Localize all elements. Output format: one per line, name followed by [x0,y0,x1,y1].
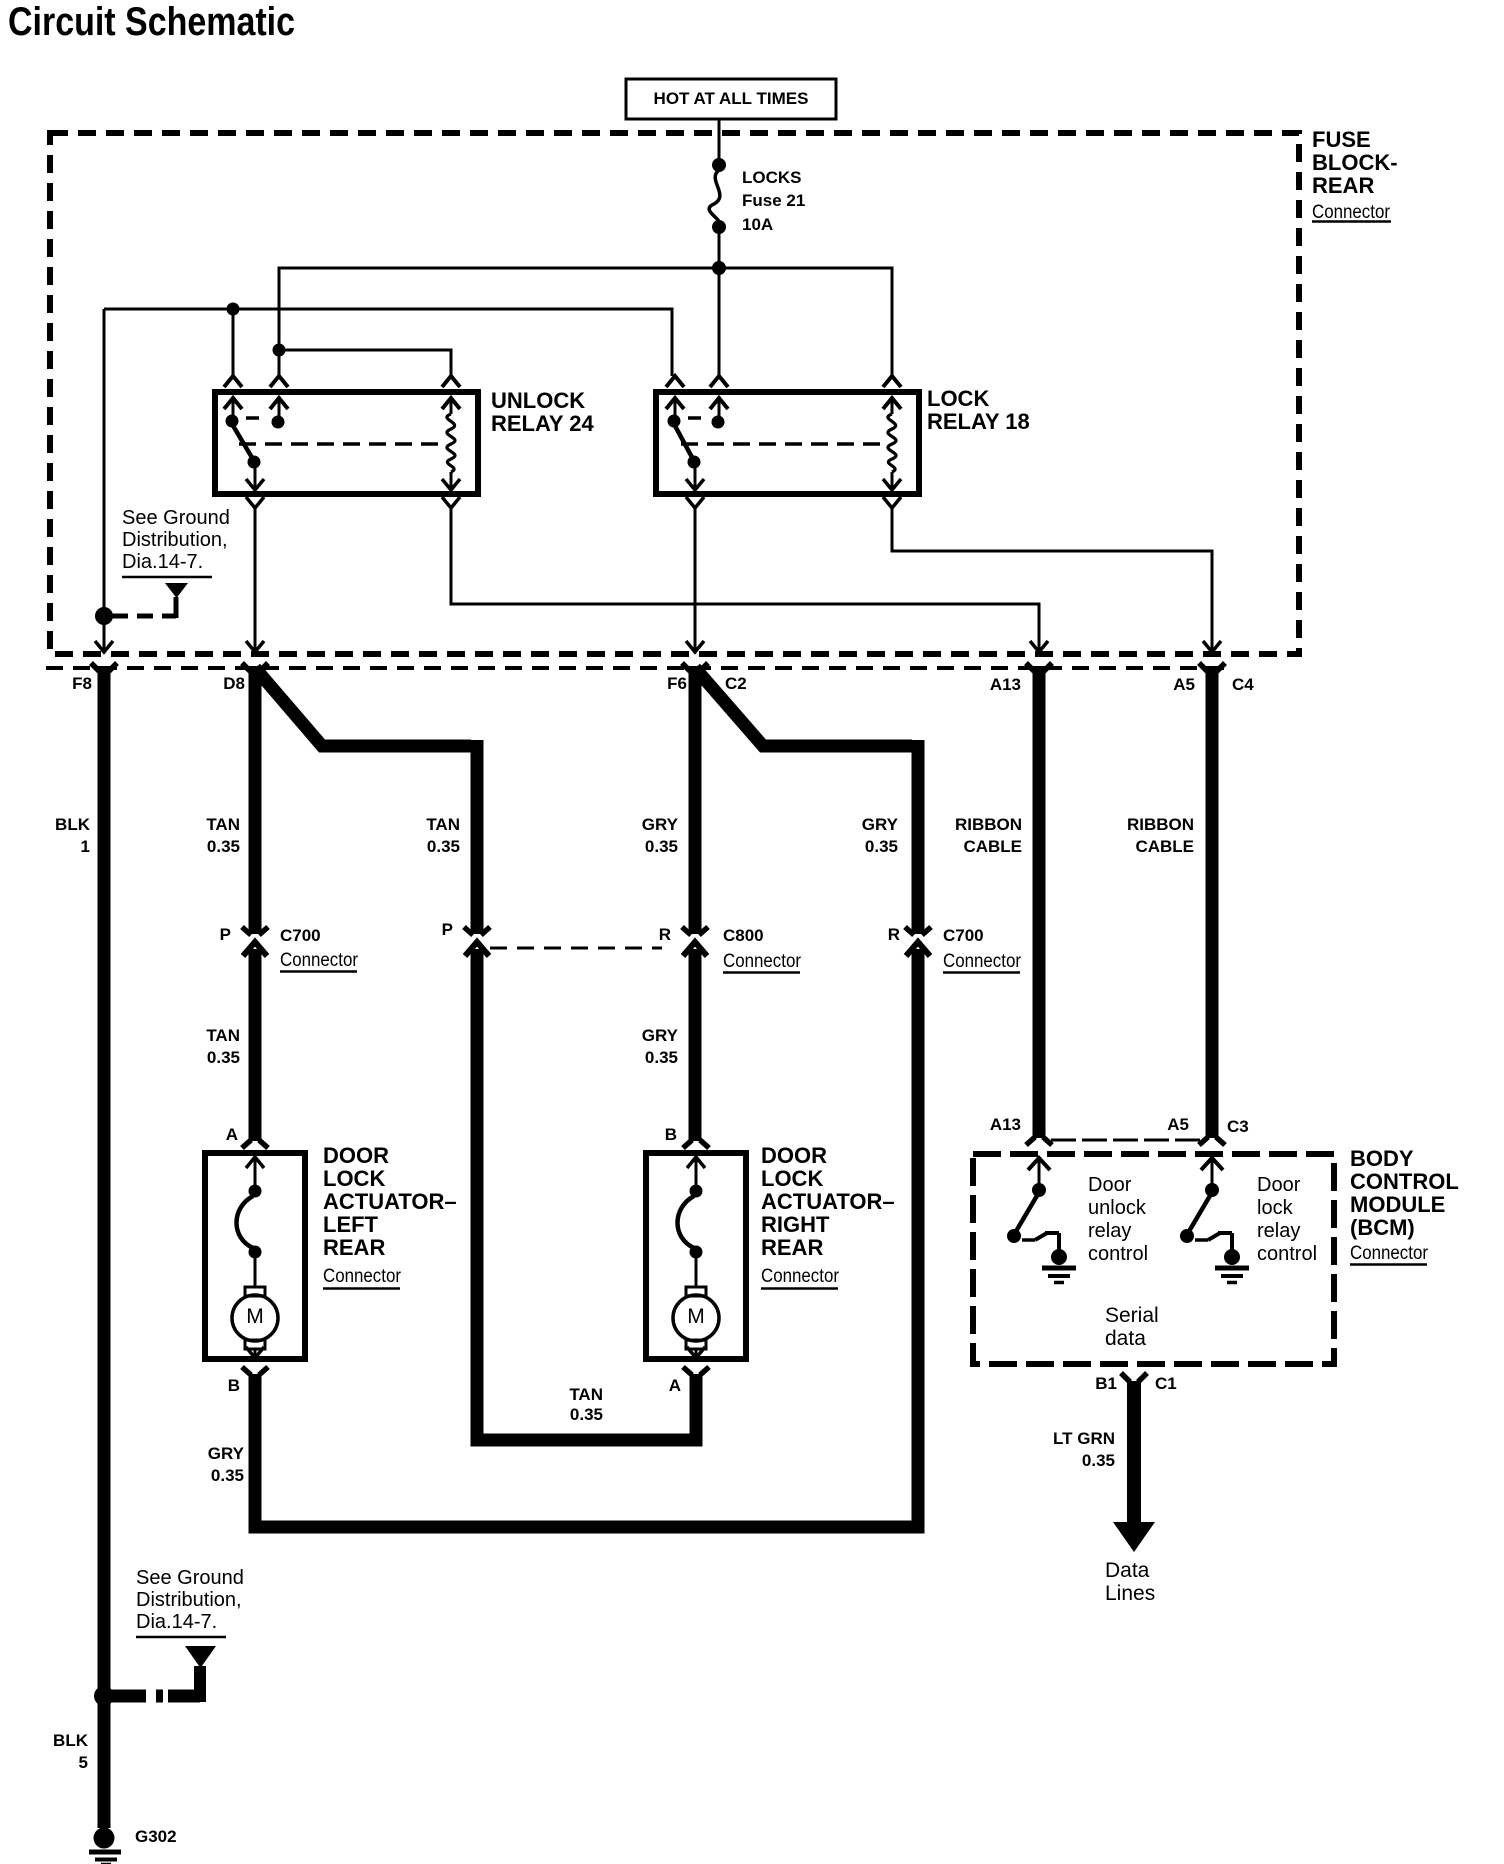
wire GRY left (F6 to C800) [689,666,702,934]
wire fuse down to junction [718,232,721,268]
wire label GRY 0.35 right [862,815,899,856]
svg-text:Fuse 21: Fuse 21 [742,191,805,210]
actuator label DOOR LOCK ACTUATOR-LEFT REAR [323,1143,457,1289]
svg-text:A: A [669,1376,681,1395]
ground distribution dashed link (top) [112,614,176,619]
svg-text:(BCM): (BCM) [1350,1215,1415,1240]
svg-text:data: data [1105,1327,1146,1350]
connector label R C800 [659,925,802,973]
svg-text:C2: C2 [725,674,747,693]
connector label P C700 [220,925,359,972]
svg-text:LEFT: LEFT [323,1212,379,1237]
wire TAN branch diagonal (D8 to right column) [255,668,471,746]
wire lock pin2 drop [718,268,721,376]
wire lock coil to A5 [892,508,1212,650]
svg-text:A5: A5 [1173,675,1195,694]
wire label TAN 0.35 left [206,815,240,856]
actuator pin label B (right top) [665,1125,677,1144]
wire unlock pin1 drop [232,309,235,376]
svg-text:A5: A5 [1167,1115,1189,1134]
note See Ground Distribution Dia.14-7 (top) [122,507,230,577]
pin label A5 [1173,675,1195,694]
wire GRY lower (C800 to actuator B) [689,949,702,1141]
actuator pin label B (left bottom) [228,1376,240,1395]
BCM text Door lock relay control [1257,1174,1317,1265]
svg-text:See Ground: See Ground [136,1567,244,1589]
junction node F8 ground tap [95,607,113,625]
svg-text:0.35: 0.35 [1082,1451,1115,1470]
svg-text:Data: Data [1105,1559,1150,1582]
wire LT GRN serial data arrow [1113,1381,1155,1552]
svg-text:REAR: REAR [761,1235,823,1260]
wire label TAN 0.35 bottom run [569,1385,603,1424]
junction node y350 [273,344,286,357]
svg-text:C1: C1 [1155,1374,1177,1393]
connector label R C700 (right) [888,925,1022,973]
fuse block label FUSE BLOCK-REAR Connector [1312,127,1398,223]
svg-text:5: 5 [79,1753,88,1772]
wire unlock coil to A13 [451,508,1039,650]
svg-text:1: 1 [81,837,90,856]
text Data Lines [1105,1559,1155,1605]
svg-text:10A: 10A [742,215,773,234]
svg-text:Dia.14-7.: Dia.14-7. [122,551,203,573]
svg-text:Connector: Connector [280,950,359,971]
svg-text:TAN: TAN [426,815,460,834]
svg-text:0.35: 0.35 [211,1466,244,1485]
svg-text:Door: Door [1257,1174,1301,1196]
wire BLK 1 (F8 to ground) [98,666,111,1828]
junction node BLK ground tap [94,1686,114,1706]
connector crossing pin D8 [242,641,268,672]
wire TAN left (D8 to C700) [249,666,262,934]
BCM text Door unlock relay control [1088,1174,1148,1265]
svg-text:M: M [687,1305,705,1328]
fuse block connector dashed line [46,666,1225,670]
svg-text:0.35: 0.35 [645,837,678,856]
svg-text:R: R [888,925,900,944]
wire label GRY 0.35 lower [642,1026,679,1067]
BCM switch door unlock relay control [1007,1137,1076,1283]
fuse Fuse 21 LOCKS 10A [709,158,805,234]
fuse block REAR dashed box [50,133,1299,654]
pin label D8 [223,674,245,693]
pin label C2 [725,674,747,693]
ground label G302 [135,1827,177,1846]
pin label A13 [990,675,1021,694]
svg-text:LOCK: LOCK [323,1166,385,1191]
wire GRY branch diagonal (C2 to right column) [695,668,912,746]
svg-text:Connector: Connector [1350,1243,1429,1264]
wire label TAN 0.35 right [426,815,460,856]
svg-text:LOCK: LOCK [927,386,989,411]
svg-text:R: R [659,925,671,944]
svg-text:Serial: Serial [1105,1304,1159,1327]
svg-text:HOT AT ALL TIMES: HOT AT ALL TIMES [654,89,809,108]
svg-text:0.35: 0.35 [645,1048,678,1067]
ground distribution dashed link (bottom) [112,1666,200,1702]
wire label GRY 0.35 bottom left [208,1444,245,1485]
svg-text:Connector: Connector [761,1266,840,1287]
wire TAN right column [471,740,484,934]
wire F8 drop [103,309,106,650]
svg-text:DOOR: DOOR [761,1143,827,1168]
svg-text:B: B [228,1376,240,1395]
wire TAN right lower (P to bottom run) [477,949,696,1440]
svg-text:CONTROL: CONTROL [1350,1169,1459,1194]
svg-text:ACTUATOR–: ACTUATOR– [323,1189,457,1214]
svg-text:P: P [220,925,231,944]
svg-text:C700: C700 [943,926,984,945]
svg-text:D8: D8 [223,674,245,693]
door lock actuator left rear (motor M) [205,1140,305,1375]
wire label LT GRN 0.35 [1053,1429,1115,1470]
svg-text:C800: C800 [723,926,764,945]
dashed link between P and R connectors [490,947,662,950]
wire GRY bottom run (B to R column) [255,949,918,1527]
wire TAN left lower (C700 to actuator A) [249,949,262,1141]
svg-text:control: control [1088,1243,1148,1265]
pin label F6 [667,674,687,693]
svg-text:B: B [665,1125,677,1144]
ground distribution triangle (top) [165,583,188,598]
wire label RIBBON CABLE left [955,815,1022,856]
wire label TAN 0.35 lower left [206,1026,240,1067]
svg-text:C4: C4 [1232,675,1254,694]
ribbon cable dashed link A13-A5 [1051,1139,1200,1142]
junction node under fuse [712,261,726,275]
svg-text:A13: A13 [990,675,1021,694]
junction node D8 bus [227,303,240,316]
wire RIBBON CABLE right (A5) [1206,666,1219,1138]
svg-text:0.35: 0.35 [427,837,460,856]
svg-text:CABLE: CABLE [963,837,1022,856]
svg-text:MODULE: MODULE [1350,1192,1445,1217]
svg-text:CABLE: CABLE [1135,837,1194,856]
BCM exit pin B1 C1 [1121,1373,1147,1382]
wire bus y268 left-right [279,268,892,376]
connector label P (right) [442,920,453,939]
svg-text:Connector: Connector [323,1266,402,1287]
power source box HOT AT ALL TIMES [626,79,836,119]
svg-text:unlock: unlock [1088,1197,1147,1219]
BCM switch door lock relay control [1180,1137,1249,1283]
svg-text:M: M [246,1305,264,1328]
svg-text:RIGHT: RIGHT [761,1212,830,1237]
connector crossing pin F8 [91,641,117,672]
svg-text:Dia.14-7.: Dia.14-7. [136,1611,217,1633]
svg-text:Distribution,: Distribution, [122,529,228,551]
actuator label DOOR LOCK ACTUATOR-RIGHT REAR [761,1143,895,1289]
svg-text:GRY: GRY [642,815,679,834]
svg-text:relay: relay [1257,1220,1300,1242]
svg-text:See Ground: See Ground [122,507,230,529]
svg-text:GRY: GRY [862,815,899,834]
door lock actuator right rear (motor M) [646,1140,746,1375]
svg-text:LOCK: LOCK [761,1166,823,1191]
wire GRY right column [912,740,925,934]
svg-text:TAN: TAN [206,1026,240,1045]
svg-text:DOOR: DOOR [323,1143,389,1168]
svg-text:0.35: 0.35 [207,1048,240,1067]
svg-text:Circuit Schematic: Circuit Schematic [8,0,295,44]
connector pin P (right) [464,927,490,956]
svg-text:Lines: Lines [1105,1582,1155,1605]
svg-text:REAR: REAR [1312,173,1374,198]
relay UNLOCK RELAY 24 [215,376,478,508]
svg-text:TAN: TAN [569,1385,603,1404]
svg-text:TAN: TAN [206,815,240,834]
svg-text:Connector: Connector [723,951,802,972]
svg-text:ACTUATOR–: ACTUATOR– [761,1189,895,1214]
svg-text:C3: C3 [1227,1117,1249,1136]
wire bus y350 to unlock coil [279,350,451,376]
svg-text:RELAY 24: RELAY 24 [491,411,594,436]
wire label GRY 0.35 left [642,815,679,856]
title Circuit Schematic [8,0,295,44]
wire lock switch out to F6 [694,508,697,650]
svg-text:UNLOCK: UNLOCK [491,388,585,413]
connector crossing pin F6 C2 [682,641,708,672]
svg-text:Distribution,: Distribution, [136,1589,242,1611]
connector C700 pin P (left) [242,927,268,956]
BCM pin label A13 [990,1115,1021,1134]
ground distribution triangle (bottom) [185,1646,216,1668]
wire HOT to fuse [718,119,721,166]
connector C700 pin R (right) [905,927,931,956]
connector crossing pin A5 C4 [1199,641,1225,672]
relay label LOCK RELAY 18 [927,386,1030,434]
BCM pin label A5 [1167,1115,1189,1134]
svg-text:LOCKS: LOCKS [742,168,802,187]
pin label F8 [72,674,92,693]
actuator pin label A (right bottom) [669,1376,681,1395]
svg-text:Door: Door [1088,1174,1132,1196]
svg-text:BLK: BLK [55,815,91,834]
BCM label BODY CONTROL MODULE (BCM) Connector [1350,1146,1459,1265]
wire label BLK 5 [53,1731,89,1772]
svg-text:C700: C700 [280,926,321,945]
BCM pin label C3 [1227,1117,1249,1136]
pin label C1 [1155,1374,1177,1393]
pin label C4 [1232,675,1254,694]
svg-text:Connector: Connector [943,951,1022,972]
wire label RIBBON CABLE right [1127,815,1194,856]
BCM text Serial data [1105,1304,1159,1350]
svg-text:0.35: 0.35 [865,837,898,856]
svg-text:GRY: GRY [208,1444,245,1463]
svg-text:G302: G302 [135,1827,177,1846]
svg-text:P: P [442,920,453,939]
note See Ground Distribution Dia.14-7 (bottom) [136,1567,244,1637]
svg-text:0.35: 0.35 [570,1405,603,1424]
wire label BLK 1 [55,815,91,856]
connector C800 pin R [682,927,708,956]
svg-text:GRY: GRY [642,1026,679,1045]
ground G302 [89,1828,121,1864]
svg-text:RELAY 18: RELAY 18 [927,409,1030,434]
svg-text:Connector: Connector [1312,202,1391,223]
svg-text:0.35: 0.35 [207,837,240,856]
svg-text:relay: relay [1088,1220,1131,1242]
svg-text:FUSE: FUSE [1312,127,1371,152]
svg-text:LT GRN: LT GRN [1053,1429,1115,1448]
svg-text:control: control [1257,1243,1317,1265]
relay label UNLOCK RELAY 24 [491,388,594,436]
actuator pin label A (left top) [226,1125,238,1144]
svg-text:REAR: REAR [323,1235,385,1260]
svg-text:RIBBON: RIBBON [1127,815,1194,834]
svg-text:F8: F8 [72,674,92,693]
pin label B1 [1095,1374,1117,1393]
svg-text:BLOCK-: BLOCK- [1312,150,1398,175]
relay LOCK RELAY 18 [656,376,919,508]
wire RIBBON CABLE left (A13) [1033,666,1046,1138]
body control module dashed box [973,1154,1334,1364]
svg-text:BLK: BLK [53,1731,89,1750]
svg-text:F6: F6 [667,674,687,693]
connector crossing pin A13 [1026,641,1052,672]
svg-text:BODY: BODY [1350,1146,1414,1171]
svg-text:lock: lock [1257,1197,1294,1219]
ground distribution stem (top) [174,597,179,618]
svg-text:B1: B1 [1095,1374,1117,1393]
svg-text:RIBBON: RIBBON [955,815,1022,834]
svg-text:A13: A13 [990,1115,1021,1134]
wire bus y309 [104,309,672,376]
wire unlock switch out to D8 [254,508,257,650]
svg-text:A: A [226,1125,238,1144]
